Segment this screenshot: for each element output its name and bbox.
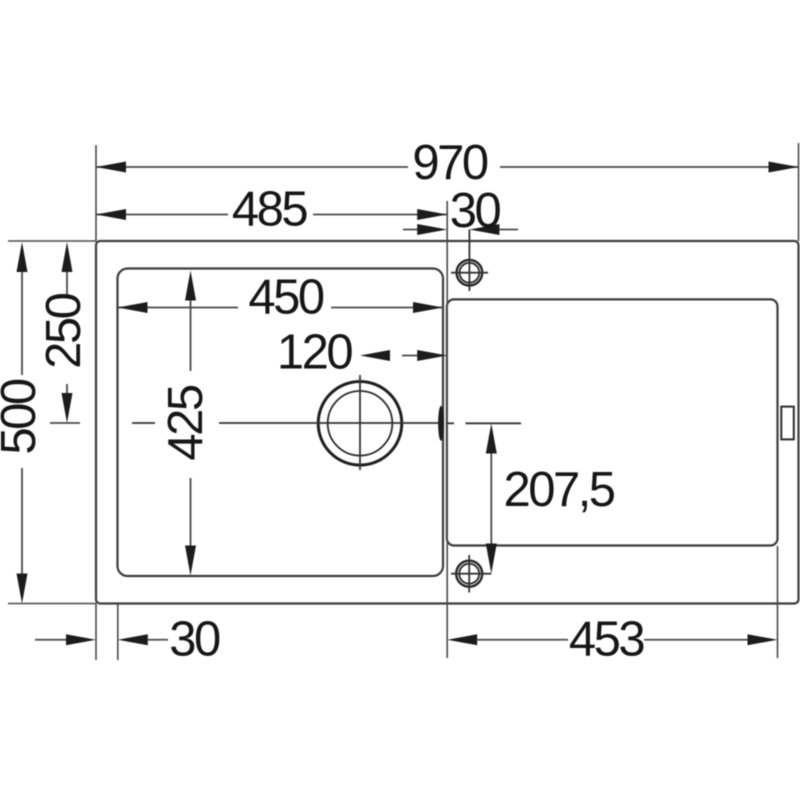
- dim 485 right arrow: [417, 209, 447, 220]
- lower faucet hole horizontal crosshair / 207,5 bottom extension: [451, 573, 491, 575]
- 207,5 top extension line: [466, 422, 522, 424]
- dim 425 bottom arrow (points down): [185, 546, 196, 576]
- dim 450 line right segment: [331, 307, 443, 309]
- dim 207,5 line: [490, 454, 492, 545]
- dim 30 top tail left: [403, 229, 420, 231]
- bowl left edge extension below: [117, 604, 119, 660]
- rim bottom edge extension to left: [8, 603, 96, 605]
- svg-text:450: 450: [248, 271, 324, 325]
- dim 970 left arrow: [96, 162, 126, 173]
- svg-text:453: 453: [569, 613, 645, 667]
- dim 30 bottom tail left: [35, 639, 66, 641]
- dim 485 line left segment: [96, 214, 228, 216]
- dim 250 line upper: [66, 272, 68, 295]
- top faucet hole: [457, 260, 483, 286]
- dim 453 line right segment: [644, 639, 748, 641]
- svg-text:500: 500: [0, 379, 46, 455]
- overflow lens on bowl right wall: [438, 406, 444, 441]
- dim 425 top arrow (points up): [185, 271, 196, 301]
- dim 425 line upper: [190, 301, 192, 372]
- svg-text:30: 30: [450, 184, 501, 238]
- left rim edge extension below: [95, 604, 97, 661]
- dim 207,5 bottom arrow (points down): [486, 544, 497, 574]
- dim 30 top right arrow (points left at faucet line): [469, 224, 499, 235]
- dim 425 line lower: [190, 478, 192, 546]
- svg-text:30: 30: [169, 613, 220, 667]
- dim 453 line left segment: [477, 639, 568, 641]
- centre/step extension line x=447.2: [446, 201, 448, 658]
- dim 30 bottom right arrow (points left): [118, 634, 148, 645]
- dim 30 bottom tail right: [148, 639, 168, 641]
- dim 970 line left segment: [96, 166, 408, 168]
- svg-text:485: 485: [232, 183, 308, 237]
- dim 970 right arrow: [769, 162, 799, 173]
- dim 30 bottom left arrow (points right): [66, 634, 96, 645]
- dim 453 left arrow (points left): [447, 634, 477, 645]
- dim 30 top tail right: [499, 229, 518, 231]
- dim 30 top left arrow (points right at centreline): [417, 224, 447, 235]
- dim 250 top arrow (points up): [62, 242, 73, 272]
- svg-text:250: 250: [37, 293, 91, 369]
- dim 970 line right segment: [500, 166, 799, 168]
- top faucet hole vertical crosshair / extension to 30-dim: [468, 230, 470, 292]
- dim 250 bottom tick: [50, 422, 80, 424]
- dim 485 line right segment: [313, 214, 447, 216]
- bowl outline: [118, 269, 444, 577]
- lower faucet hole: [456, 561, 482, 587]
- svg-text:207,5: 207,5: [503, 463, 614, 517]
- outer left edge extension above: [95, 145, 97, 241]
- dim 120 left arrow (points left at drain centreline): [360, 350, 390, 361]
- drain horizontal centreline dash right: [446, 422, 454, 424]
- drain vertical crosshair: [359, 375, 361, 470]
- svg-text:425: 425: [159, 385, 213, 461]
- drain horizontal centreline main: [219, 422, 444, 424]
- dim 450 line left segment: [118, 307, 239, 309]
- dim 500 line lower: [21, 468, 23, 574]
- dim 120 right arrow (points right at step line): [417, 350, 447, 361]
- dim 207,5 top arrow (points up): [486, 424, 497, 454]
- svg-text:120: 120: [277, 326, 353, 380]
- top faucet hole horizontal crosshair: [451, 272, 488, 274]
- dim 485 left arrow: [96, 209, 126, 220]
- rim top edge extension to left: [8, 240, 96, 242]
- drainboard right edge extension line: [777, 546, 779, 658]
- dim 500 bottom arrow (points down): [17, 574, 28, 604]
- dim 250 bottom arrow (points down): [62, 393, 73, 423]
- lower faucet hole vertical crosshair: [468, 555, 470, 593]
- drain horizontal centreline dash left: [132, 422, 155, 424]
- dim 500 top arrow (points up): [17, 242, 28, 272]
- outer right edge extension above: [798, 143, 800, 241]
- dim 450 right arrow: [413, 302, 443, 313]
- dim 450 left arrow: [118, 302, 148, 313]
- drainboard outline: [447, 299, 778, 545]
- sink outer rim rectangle: [96, 241, 799, 604]
- dim 250 line lower: [66, 384, 68, 393]
- svg-text:970: 970: [412, 136, 488, 190]
- dim 500 line upper: [21, 272, 23, 375]
- dim 120 dash: [402, 355, 419, 357]
- overflow slot rectangle on right rim: [781, 407, 794, 440]
- drain hole inner circle: [328, 391, 393, 456]
- drain hole outer circle: [318, 382, 402, 466]
- dim 453 right arrow (points right): [748, 634, 778, 645]
